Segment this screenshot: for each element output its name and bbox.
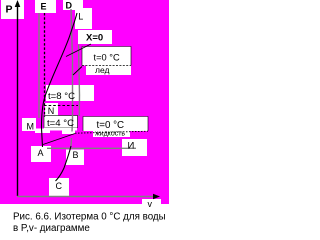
svg-text:N: N bbox=[48, 106, 55, 116]
svg-text:A: A bbox=[38, 148, 44, 158]
svg-text:лед: лед bbox=[95, 65, 110, 75]
svg-text:t=0 °С: t=0 °С bbox=[97, 120, 125, 131]
svg-text:X=0: X=0 bbox=[86, 33, 103, 44]
svg-text:Рис. 6.6. Изотерма 0 °С для во: Рис. 6.6. Изотерма 0 °С для воды bbox=[13, 212, 166, 223]
svg-text:C: C bbox=[56, 181, 63, 191]
svg-text:t=4 °С: t=4 °С bbox=[47, 118, 74, 129]
svg-text:t=0 °С: t=0 °С bbox=[94, 53, 120, 63]
svg-text:в P,v- диаграмме: в P,v- диаграмме bbox=[13, 223, 90, 234]
svg-text:L: L bbox=[78, 12, 83, 22]
svg-text:B: B bbox=[73, 150, 79, 160]
svg-text:E: E bbox=[41, 2, 47, 12]
svg-text:t=8 °С: t=8 °С bbox=[48, 91, 75, 102]
svg-text:D: D bbox=[66, 1, 73, 11]
svg-text:P: P bbox=[6, 4, 13, 16]
svg-text:v: v bbox=[148, 199, 153, 209]
svg-text:И: И bbox=[128, 141, 135, 152]
svg-text:жидкость: жидкость bbox=[95, 131, 125, 138]
svg-text:M: M bbox=[27, 122, 35, 132]
